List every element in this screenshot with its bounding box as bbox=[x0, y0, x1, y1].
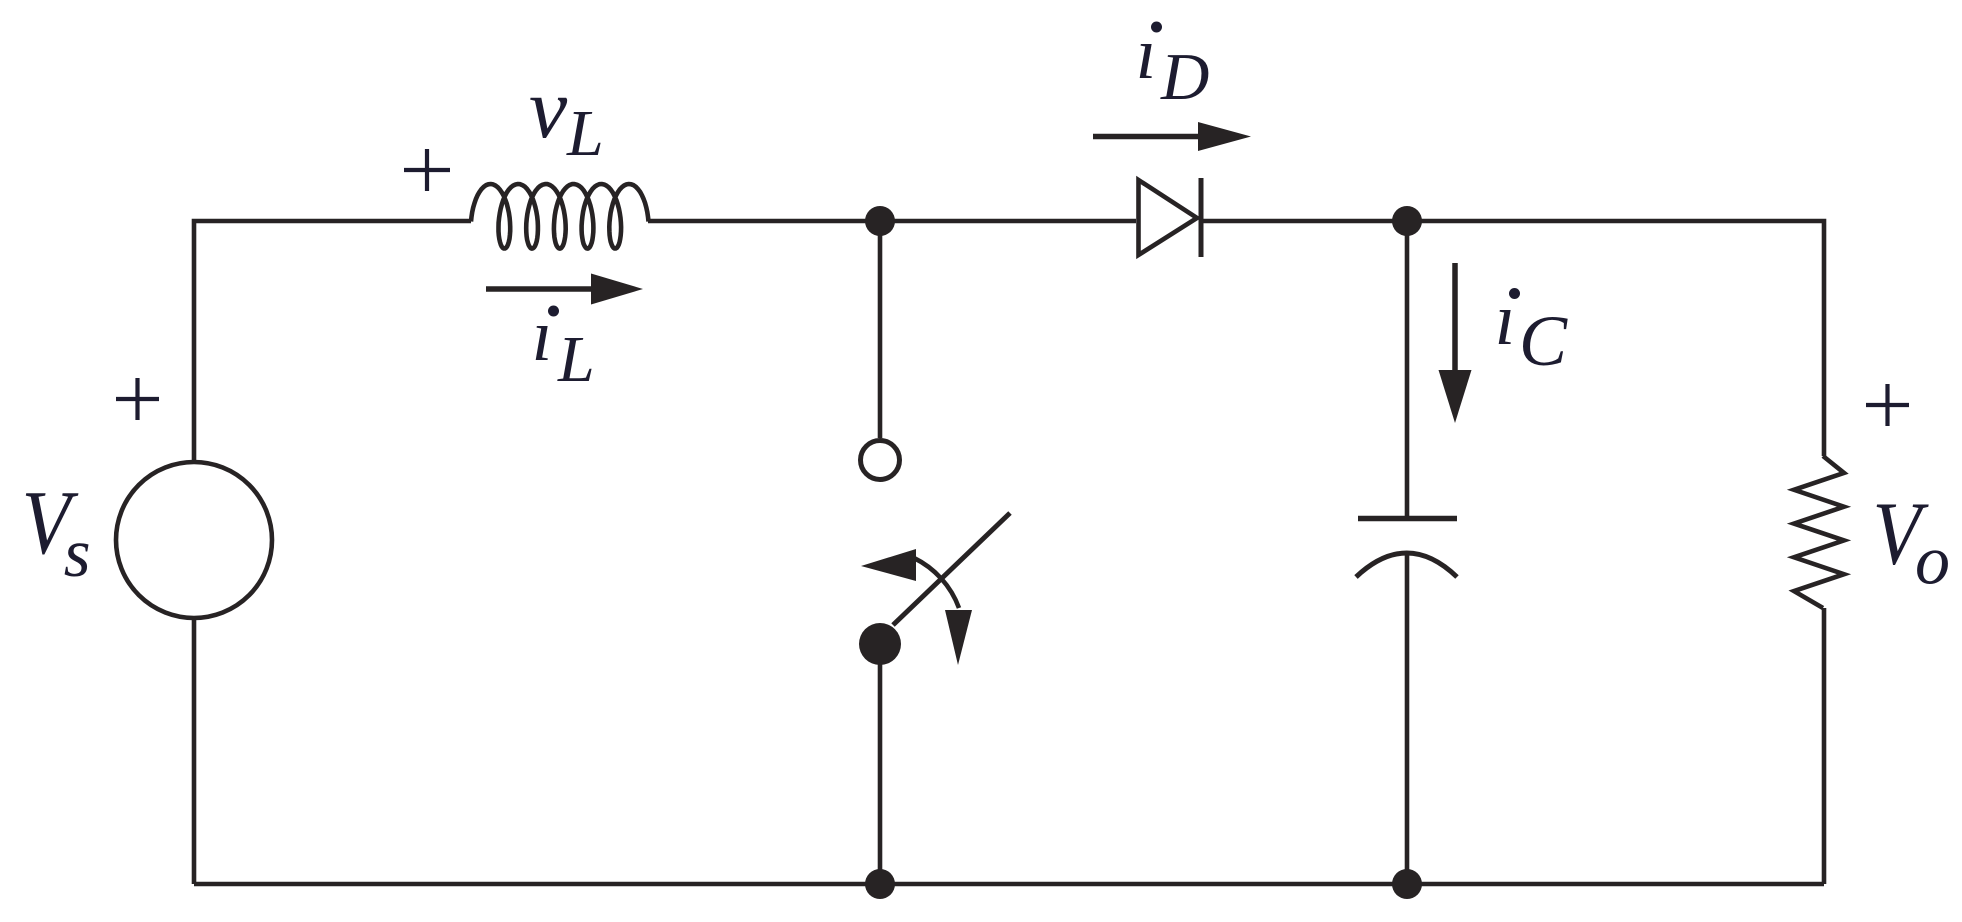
arrow iC current bbox=[1439, 263, 1472, 423]
switch SW arc arrowhead left bbox=[861, 549, 916, 581]
diode D triangle bbox=[1139, 180, 1198, 255]
wire left-bottom: source to bottom rail bbox=[192, 617, 197, 884]
wire capacitor branch lower bbox=[1405, 552, 1410, 884]
wire top-right: diode cathode to load corner bbox=[1203, 221, 1824, 456]
arrow iD current bbox=[1093, 122, 1251, 151]
switch SW open terminal circle bbox=[861, 441, 900, 480]
svg-text:L: L bbox=[566, 97, 604, 170]
svg-text:o: o bbox=[1915, 523, 1950, 600]
plus sign of Vo bbox=[1866, 384, 1909, 426]
switch SW pivot dot bbox=[859, 623, 901, 665]
plus sign of vL bbox=[404, 149, 450, 191]
switch SW arc arrowhead down bbox=[945, 610, 972, 665]
diode D cathode bar bbox=[1199, 178, 1204, 257]
wire top-left: source to inductor bbox=[194, 221, 471, 463]
plus sign of Vs bbox=[116, 378, 159, 420]
arrow iL current bbox=[486, 274, 643, 305]
svg-text:ı: ı bbox=[532, 295, 553, 377]
wire right-bottom: resistor to bottom rail bbox=[1822, 608, 1827, 884]
resistor R load zigzag bbox=[1794, 456, 1844, 608]
svg-text:v: v bbox=[529, 60, 568, 156]
node B: output top junction bbox=[1392, 206, 1422, 236]
voltage source Vs bbox=[116, 462, 272, 618]
svg-text:s: s bbox=[64, 515, 91, 591]
capacitor C top plate bbox=[1358, 516, 1457, 522]
switch SW rotation arc bbox=[914, 558, 959, 608]
switch SW blade bbox=[893, 513, 1010, 625]
wire switch branch lower bbox=[878, 664, 883, 884]
wire switch branch upper bbox=[878, 221, 883, 438]
node C: switch bottom junction bbox=[865, 869, 895, 899]
wire bottom rail bbox=[194, 882, 1824, 887]
capacitor C curved plate bbox=[1356, 553, 1457, 577]
svg-text:C: C bbox=[1519, 301, 1568, 381]
svg-text:D: D bbox=[1160, 40, 1209, 114]
svg-text:L: L bbox=[557, 323, 595, 396]
wire top-middle: inductor to switch node bbox=[648, 219, 1136, 224]
wire capacitor branch upper bbox=[1405, 221, 1410, 516]
node D: capacitor bottom junction bbox=[1392, 869, 1422, 899]
node A: switch top junction bbox=[865, 206, 895, 236]
inductor L coil bbox=[471, 184, 649, 249]
